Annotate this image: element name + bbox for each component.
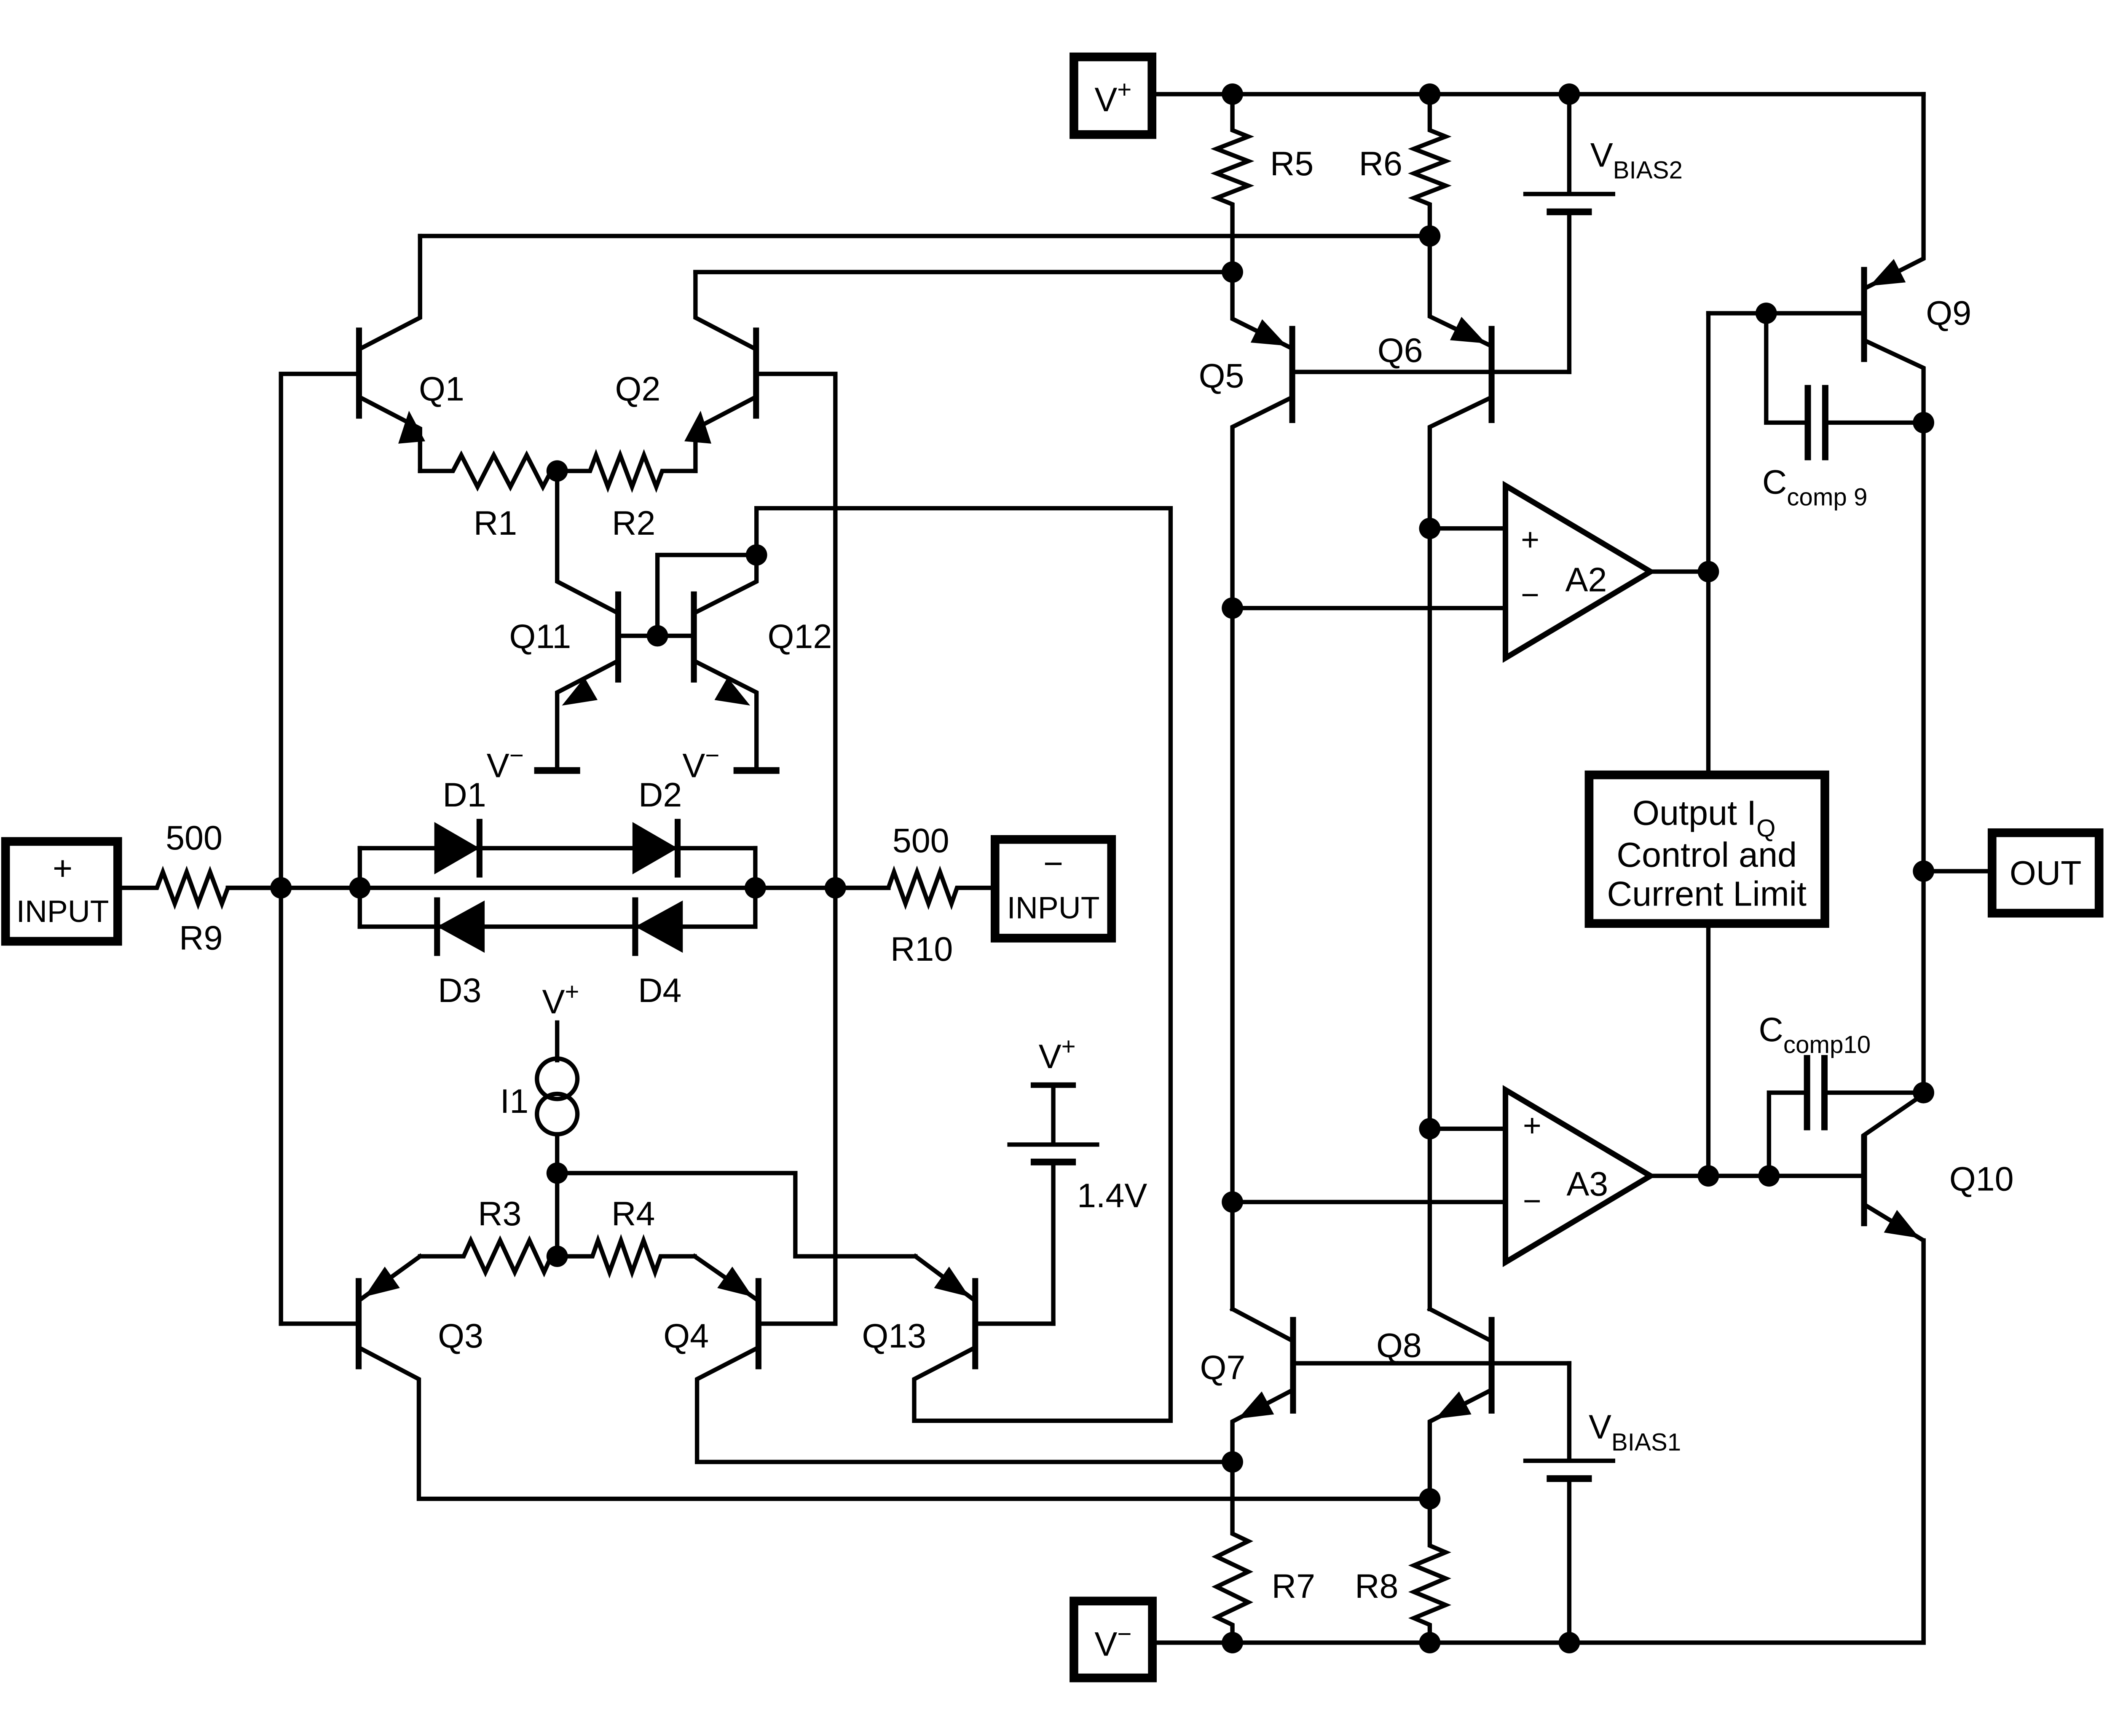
Output IQ control block — [1589, 775, 1825, 924]
junction A3 plus input — [1419, 1118, 1441, 1139]
wire A2 plus input — [1430, 526, 1506, 531]
svg-text:500: 500 — [166, 819, 222, 857]
Q9 base lead — [1708, 311, 1864, 316]
svg-text:Q9: Q9 — [1926, 295, 1971, 332]
Q3 base lead — [281, 1321, 359, 1326]
wire A3 plus input — [1430, 1126, 1506, 1131]
A3 minus sign — [1523, 1183, 1541, 1219]
Q13 base lead — [975, 1321, 1053, 1326]
+ sign (+INPUT) — [53, 849, 72, 887]
resistor R6 — [1414, 94, 1445, 235]
Q5 collector lead — [1233, 397, 1292, 1309]
wire A3 output — [1651, 1173, 1864, 1178]
Q13 emitter lead — [915, 1256, 974, 1300]
wire VBIAS2 stem bottom — [1567, 215, 1571, 372]
wire A2 output — [1651, 569, 1708, 574]
junction top rail / R6 — [1419, 83, 1441, 105]
svg-text:Q11: Q11 — [509, 618, 571, 656]
svg-text:A2: A2 — [1566, 561, 1607, 599]
Q12 collector lead — [694, 555, 757, 613]
diode D4 — [635, 897, 683, 956]
svg-text:Q2: Q2 — [615, 370, 660, 408]
D1 label — [442, 776, 486, 814]
svg-text:INPUT: INPUT — [16, 894, 109, 929]
diode D3 — [437, 897, 485, 956]
junction A3 out / box — [1698, 1165, 1719, 1187]
Q6 collector lead — [1430, 397, 1492, 1309]
Q11 emitter lead — [557, 661, 618, 770]
svg-text:R2: R2 — [612, 504, 655, 542]
wire 1.4V stem bottom — [1051, 1165, 1056, 1323]
R10 label — [890, 930, 953, 968]
Q9 collector lead — [1864, 340, 1924, 1093]
A3 plus sign — [1523, 1108, 1541, 1143]
junction bottom rail / R7 — [1222, 1632, 1243, 1653]
resistor R8 — [1414, 1499, 1445, 1642]
svg-text:500: 500 — [893, 822, 949, 860]
R2 label — [612, 504, 655, 542]
diode D2 — [633, 819, 678, 877]
V+ label (I1) — [542, 978, 579, 1021]
wire box bottom to A3 out — [1706, 928, 1710, 1176]
Q6 label — [1378, 332, 1423, 370]
Q7 emitter lead — [1233, 1390, 1293, 1462]
svg-text:Q8: Q8 — [1376, 1326, 1422, 1364]
Q4 label — [663, 1317, 709, 1355]
wire Q1 base to Q3 base — [279, 888, 283, 1323]
svg-text:Q13: Q13 — [862, 1317, 926, 1355]
+INPUT terminal box — [5, 841, 118, 941]
junction R5 / y556 rail / Q5 emitter — [1222, 261, 1243, 283]
battery 1.4V — [1007, 1144, 1099, 1162]
500 value label (R9) — [166, 819, 222, 857]
R1 label — [474, 504, 517, 542]
Q1 emitter arrow — [398, 411, 425, 444]
V- label (Q12) — [682, 742, 719, 785]
D2 label — [638, 776, 682, 814]
svg-text:A3: A3 — [1566, 1165, 1608, 1203]
junction Q11-Q12 bases — [647, 625, 668, 647]
wire Q12-collector rail up — [756, 508, 1171, 555]
wire A3 minus input — [1233, 1200, 1506, 1204]
junction A2 minus input — [1222, 597, 1243, 619]
Q5 label — [1199, 357, 1244, 395]
svg-text:+: + — [1523, 1108, 1541, 1143]
transistor Q5 bar — [1289, 326, 1295, 423]
-INPUT terminal box — [995, 839, 1111, 938]
junction I1 / Q13 feed — [547, 1163, 568, 1184]
Q11 emitter arrow — [562, 678, 598, 706]
VBIAS1 label — [1589, 1408, 1681, 1456]
Q3 label — [438, 1317, 483, 1355]
R6 label — [1359, 145, 1402, 183]
V- terminal box — [1074, 1601, 1152, 1678]
D4 label — [638, 972, 681, 1010]
svg-text:+: + — [1521, 522, 1539, 557]
500 value label (R10) — [893, 822, 949, 860]
junction bottom rail / R8 — [1419, 1632, 1441, 1653]
Q9 emitter arrow — [1870, 259, 1906, 286]
svg-text:R6: R6 — [1359, 145, 1402, 183]
current source I1 — [537, 1058, 577, 1134]
battery VBIAS1 — [1523, 1461, 1615, 1479]
wire Ccomp10 right lead — [1825, 1090, 1924, 1095]
OUT label — [2010, 854, 2082, 892]
resistor R2 — [557, 455, 695, 487]
svg-text:D3: D3 — [438, 972, 481, 1010]
transistor Q2 bar — [753, 327, 759, 418]
svg-text:Control and: Control and — [1616, 835, 1797, 874]
transistor Q8 bar — [1488, 1317, 1495, 1413]
R9 label — [179, 919, 222, 957]
Q7 emitter arrow — [1238, 1391, 1274, 1419]
Q2 collector lead — [695, 272, 756, 349]
Q7 label — [1200, 1349, 1245, 1387]
Q1 base lead — [281, 374, 359, 888]
junction R6 / y465 rail / Q6 emitter — [1419, 225, 1441, 247]
transistor Q13 bar — [972, 1278, 978, 1369]
svg-text:−: − — [1043, 845, 1063, 883]
Q4 base lead — [759, 1321, 835, 1326]
VBIAS2 label — [1590, 137, 1683, 184]
Q8 emitter arrow — [1435, 1391, 1472, 1419]
junction Q12 collector node — [746, 544, 767, 566]
Q9 label — [1926, 295, 1971, 332]
resistor R9 — [122, 872, 281, 903]
V+ label (1.4V battery) — [1039, 1033, 1076, 1076]
Q10 emitter lead — [1864, 1204, 1924, 1642]
op-amp A2 — [1506, 486, 1651, 658]
junction input row / Q1 base — [270, 877, 292, 899]
junction A3 out / Ccomp10 — [1758, 1165, 1780, 1187]
INPUT label (-INPUT) — [1007, 890, 1100, 925]
Q3 emitter arrow — [365, 1267, 400, 1297]
svg-text:D1: D1 — [442, 776, 486, 814]
R5 label — [1270, 145, 1314, 183]
ground bar V- (Q12) — [734, 767, 780, 774]
resistor R10 — [835, 872, 991, 903]
Q6 emitter arrow — [1450, 317, 1486, 343]
block text line3 — [1607, 874, 1807, 913]
wire Q2 base to Q4 base — [833, 888, 838, 1323]
I1 label — [500, 1082, 528, 1120]
Q12 emitter lead — [694, 661, 757, 770]
junction R1-R2 center — [547, 460, 568, 482]
svg-text:−: − — [1523, 1183, 1541, 1219]
wire base to collector tie — [657, 555, 756, 636]
Q13 label — [862, 1317, 926, 1355]
wire input row — [228, 886, 889, 890]
wire VBIAS1 stem bottom — [1567, 1482, 1571, 1643]
svg-text:INPUT: INPUT — [1007, 890, 1100, 925]
svg-text:R7: R7 — [1272, 1567, 1315, 1605]
junction top rail / VBIAS2 — [1559, 83, 1580, 105]
transistor Q1 bar — [356, 327, 362, 418]
svg-text:Q6: Q6 — [1378, 332, 1423, 370]
svg-text:Q1: Q1 — [419, 370, 464, 408]
transistor Q10 bar — [1861, 1135, 1867, 1226]
svg-text:+: + — [53, 849, 72, 887]
Q4 emitter lead — [694, 1256, 757, 1300]
R8 label — [1355, 1567, 1398, 1605]
battery VBIAS2 — [1523, 194, 1615, 212]
svg-text:−: − — [1521, 577, 1539, 612]
svg-text:D2: D2 — [638, 776, 682, 814]
junction Ccomp10 / Q10 collector — [1913, 1082, 1934, 1104]
D3 label — [438, 972, 481, 1010]
1.4V value label — [1077, 1177, 1147, 1215]
V- label (Q11) — [487, 742, 524, 785]
Q7 collector lead — [1233, 1309, 1293, 1341]
wire I1 to R3R4 center — [555, 1173, 560, 1256]
junction Q8 emitter / LineC — [1419, 1488, 1441, 1510]
junction A2 output — [1698, 561, 1719, 582]
junction top rail / R5 — [1222, 83, 1243, 105]
transistor Q7 bar — [1290, 1317, 1296, 1413]
wire VBIAS2 stem top — [1567, 94, 1571, 192]
Q2 emitter arrow — [684, 411, 711, 444]
svg-text:R4: R4 — [611, 1195, 655, 1233]
svg-text:1.4V: 1.4V — [1077, 1177, 1147, 1215]
wire V+ top rail — [1156, 92, 1924, 96]
resistor R3 — [420, 1240, 557, 1272]
wire VBIAS1 stem top — [1567, 1363, 1571, 1459]
wire box top to A2 out — [1706, 313, 1710, 770]
junction input row / Q2 base — [825, 877, 846, 899]
transistor Q9 bar — [1861, 267, 1867, 362]
wire Q2-collector to R5 rail — [695, 270, 1232, 274]
svg-text:R1: R1 — [474, 504, 517, 542]
junction OUT node — [1913, 860, 1934, 882]
transistor Q6 bar — [1488, 326, 1495, 423]
R3 label — [478, 1195, 521, 1233]
Q13 collector lead — [914, 508, 1170, 1421]
Ccomp9 label — [1762, 463, 1868, 511]
svg-text:Current Limit: Current Limit — [1607, 874, 1807, 913]
wire Q1-collector to R6 rail — [420, 234, 1430, 238]
wire to OUT box — [1924, 869, 1988, 873]
resistor R4 — [557, 1240, 694, 1272]
Q11 collector lead — [557, 471, 618, 613]
svg-text:OUT: OUT — [2010, 854, 2082, 892]
svg-text:Q12: Q12 — [768, 618, 832, 656]
wire bridge bottom row — [360, 924, 755, 929]
wire Ccomp9 left riser — [1766, 313, 1808, 423]
svg-text:R10: R10 — [890, 930, 953, 968]
Q3 emitter lead — [360, 1256, 420, 1300]
junction Q9 base / Ccomp9 — [1756, 303, 1777, 324]
transistor Q11 bar — [615, 592, 621, 683]
transistor Q3 bar — [356, 1278, 362, 1369]
junction Q7 emitter / LineB — [1222, 1451, 1243, 1473]
V- label (box) — [1094, 1621, 1131, 1664]
V+ terminal bar (1.4V) — [1031, 1082, 1076, 1088]
diode D1 — [434, 819, 480, 877]
R4 label — [611, 1195, 655, 1233]
svg-text:R9: R9 — [179, 919, 222, 957]
wire A2 minus input — [1233, 606, 1506, 611]
Q4 emitter arrow — [717, 1267, 753, 1297]
op-amp A3 — [1506, 1090, 1651, 1262]
Q5 emitter arrow — [1251, 319, 1287, 346]
Q3 collector lead — [359, 1348, 1430, 1499]
svg-text:Q4: Q4 — [663, 1317, 709, 1355]
svg-text:Q10: Q10 — [1949, 1160, 2014, 1198]
capacitor Ccomp10 — [1807, 1055, 1824, 1131]
wire I1 top lead — [555, 1023, 560, 1060]
Q5 emitter lead — [1233, 272, 1292, 348]
svg-text:D4: D4 — [638, 972, 681, 1010]
wire bridge top row — [360, 846, 755, 850]
wire bridge left stub — [357, 848, 362, 927]
Q11 label — [509, 618, 571, 656]
Q11 base lead — [618, 633, 657, 638]
svg-text:R8: R8 — [1355, 1567, 1398, 1605]
Q12 label — [768, 618, 832, 656]
svg-text:Q7: Q7 — [1200, 1349, 1245, 1387]
Ccomp10 label — [1759, 1011, 1871, 1058]
Q13 emitter arrow — [934, 1267, 969, 1297]
ground bar V- (Q11) — [534, 767, 580, 774]
Q8 collector lead — [1430, 1309, 1492, 1341]
junction Ccomp9 / Q9 collector — [1913, 412, 1934, 434]
Q10 emitter arrow — [1884, 1210, 1920, 1238]
Q2 label — [615, 370, 660, 408]
resistor R7 — [1217, 1462, 1248, 1643]
- sign (-INPUT) — [1043, 845, 1063, 883]
junction A3 minus input — [1222, 1191, 1243, 1213]
svg-text:Q5: Q5 — [1199, 357, 1244, 395]
Q1 collector lead — [359, 236, 420, 349]
Q12 base lead — [657, 633, 694, 638]
OUT terminal box — [1992, 833, 2099, 913]
junction A2 plus input — [1419, 518, 1441, 539]
wire Q5-Q6 base row — [1292, 370, 1569, 374]
junction R3-R4 center — [547, 1246, 568, 1267]
Q4 collector lead — [697, 1348, 1232, 1462]
resistor R1 — [420, 455, 557, 487]
wire Ccomp10 left riser — [1769, 1093, 1807, 1176]
wire I1 to Q13 feed — [557, 1173, 915, 1256]
Q1 label — [419, 370, 464, 408]
capacitor Ccomp9 — [1808, 385, 1825, 461]
wire 1.4V stem top — [1051, 1085, 1056, 1142]
Q10 collector lead — [1864, 1093, 1924, 1135]
wire Q7-Q8 base row — [1293, 1361, 1569, 1366]
svg-text:R3: R3 — [478, 1195, 521, 1233]
A3 label — [1566, 1165, 1608, 1203]
R7 label — [1272, 1567, 1315, 1605]
Q10 label — [1949, 1160, 2014, 1198]
Q2 base lead — [756, 374, 835, 888]
INPUT label (+INPUT) — [16, 894, 109, 929]
transistor Q12 bar — [691, 592, 697, 683]
V+ label — [1094, 76, 1131, 119]
Q8 emitter lead — [1430, 1390, 1492, 1499]
Q2 emitter lead — [695, 397, 756, 471]
A2 label — [1566, 561, 1607, 599]
wire bottom V- rail — [1157, 1240, 1924, 1642]
Q6 emitter lead — [1430, 236, 1492, 346]
wire I1 bottom lead — [555, 1134, 560, 1173]
V+ terminal box — [1074, 57, 1152, 134]
block text line1 — [1633, 793, 1776, 842]
wire bridge right stub — [753, 848, 758, 927]
wire Ccomp9 right lead — [1825, 421, 1923, 425]
Q8 label — [1376, 1326, 1422, 1364]
transistor Q4 bar — [755, 1278, 761, 1369]
svg-text:R5: R5 — [1270, 145, 1314, 183]
svg-text:I1: I1 — [500, 1082, 528, 1120]
junction input row / bridge right — [745, 877, 766, 899]
block text line2 — [1616, 835, 1797, 874]
svg-text:Q3: Q3 — [438, 1317, 483, 1355]
Q12 emitter arrow — [715, 678, 751, 706]
junction bottom rail / VBIAS1 — [1559, 1632, 1580, 1653]
resistor R5 — [1217, 94, 1248, 272]
A2 plus sign — [1521, 522, 1539, 557]
Q9 emitter lead — [1864, 94, 1924, 289]
Q1 emitter lead — [359, 397, 420, 471]
A2 minus sign — [1521, 577, 1539, 612]
junction input row / bridge left — [349, 877, 370, 899]
